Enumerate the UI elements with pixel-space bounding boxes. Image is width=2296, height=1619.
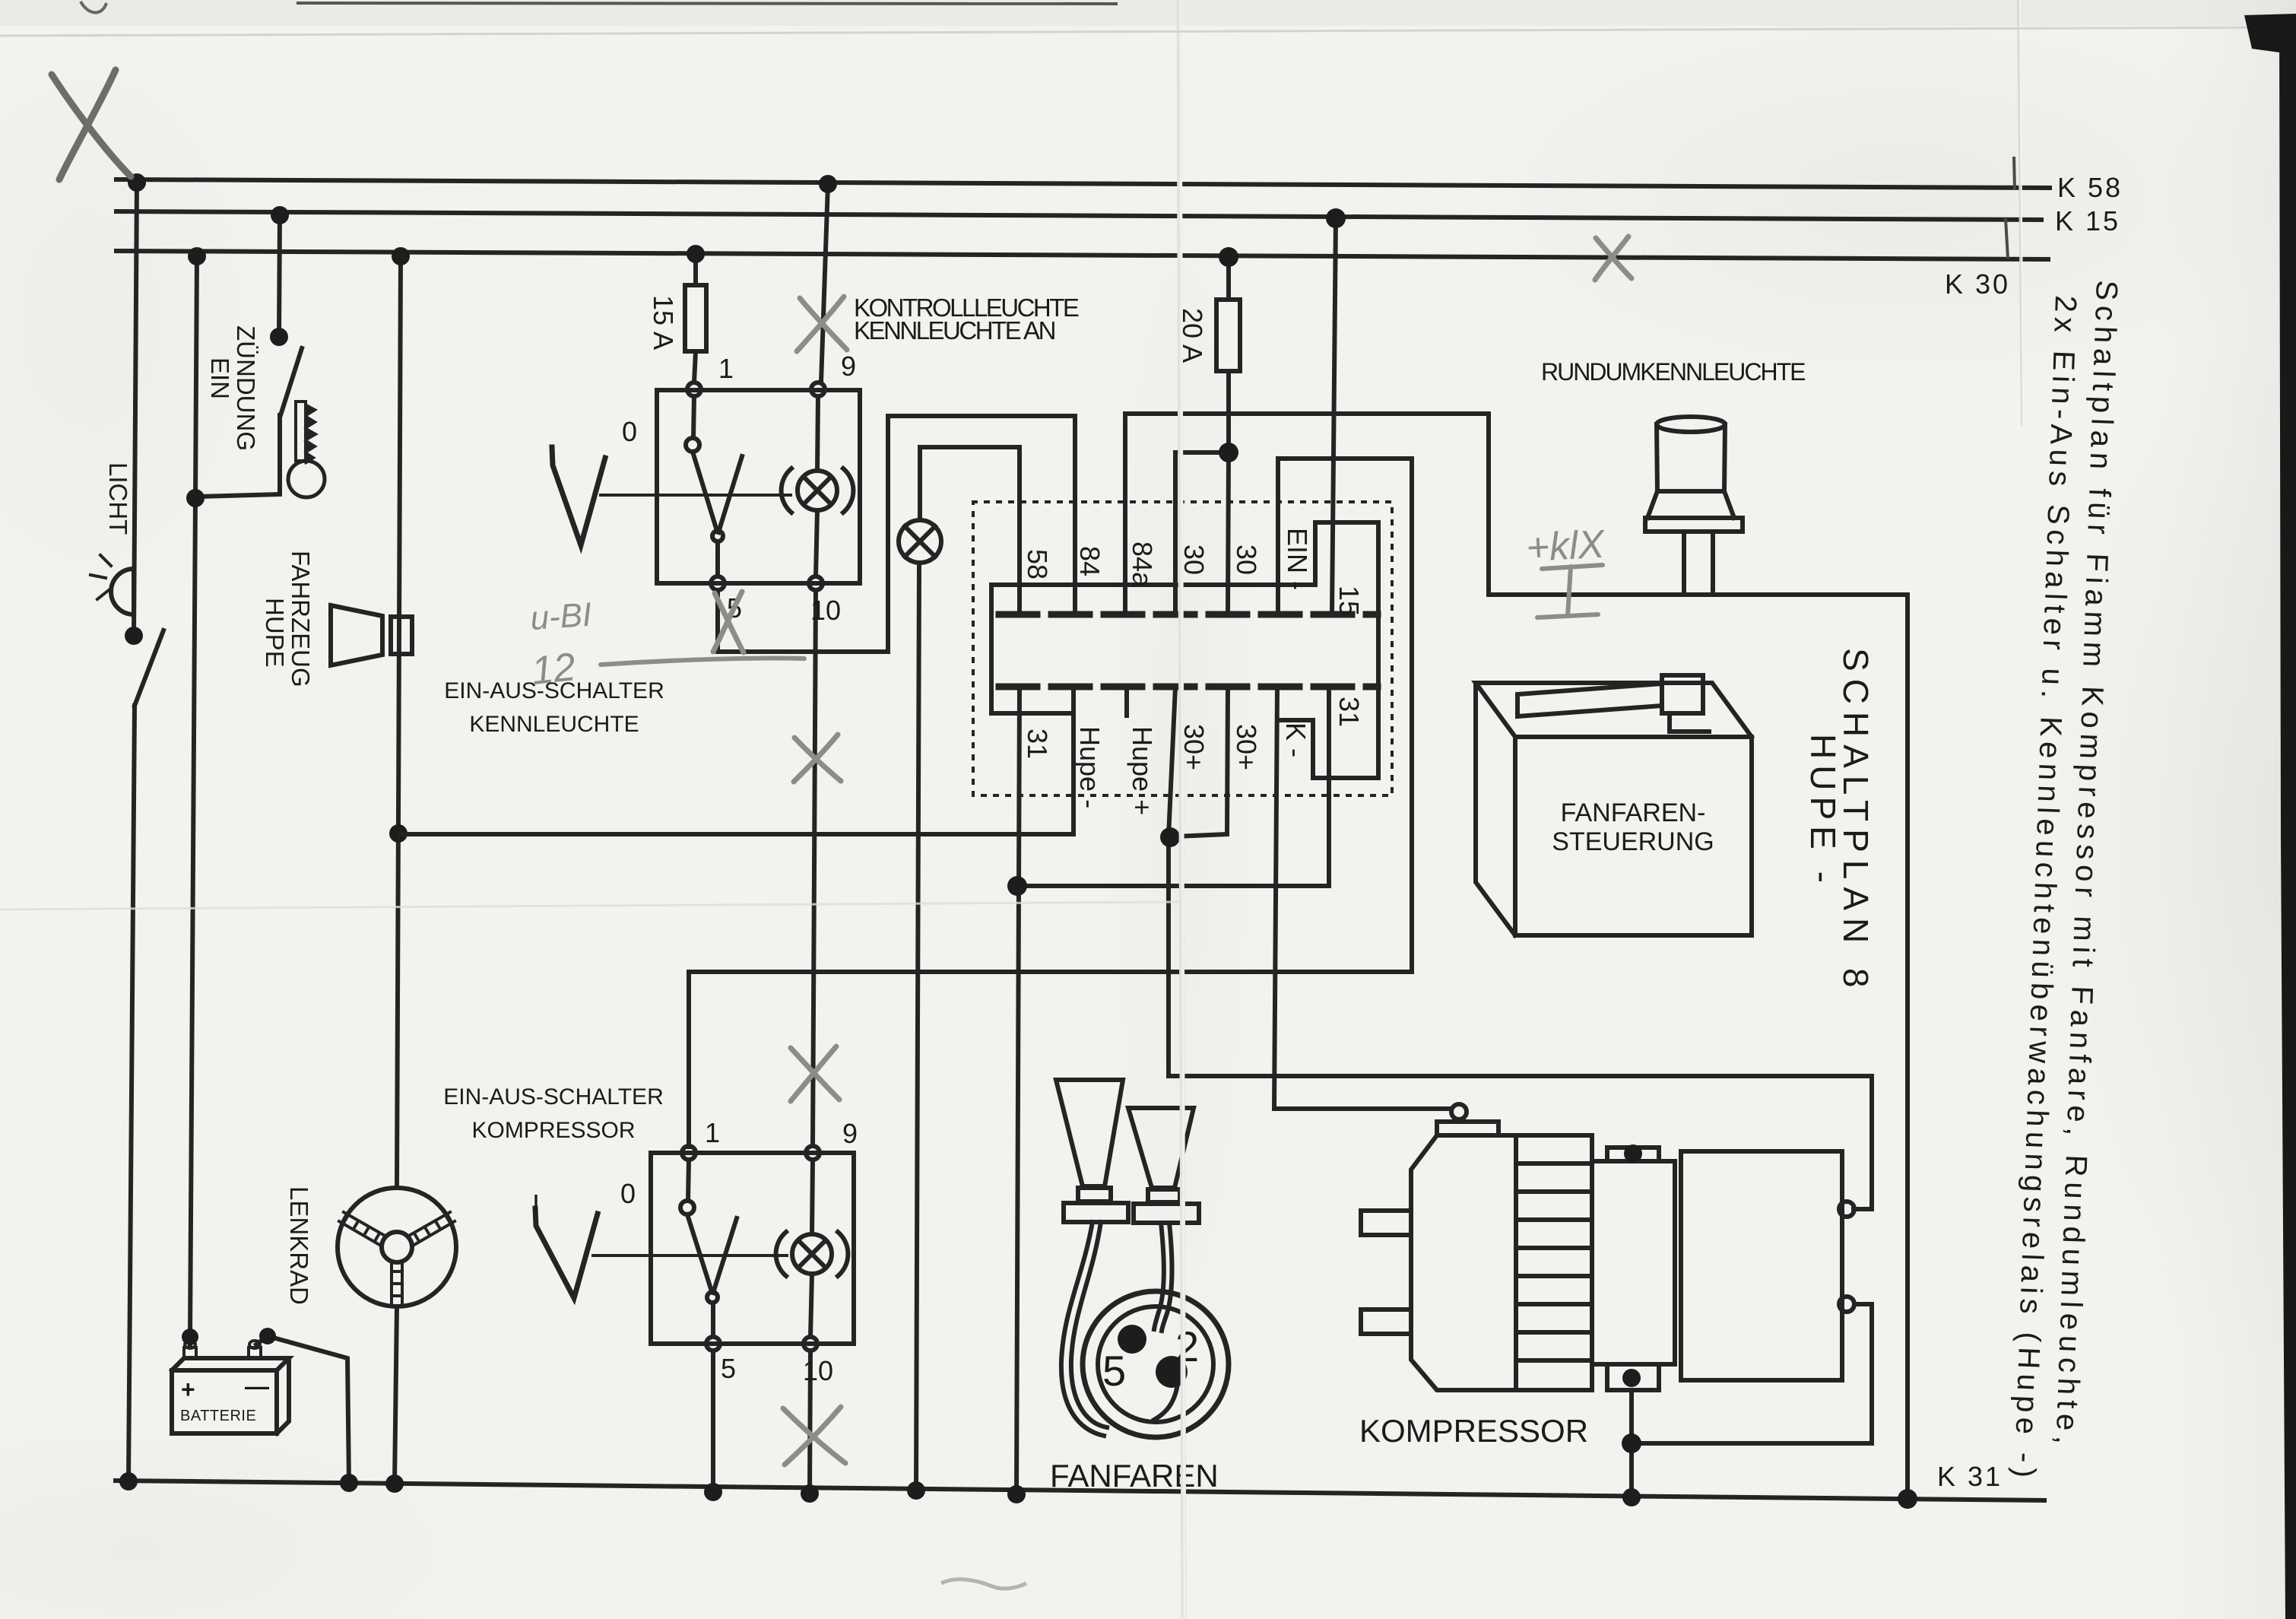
svg-text:KOMPRESSOR: KOMPRESSOR xyxy=(1359,1413,1588,1449)
node K30 fuse15 tap xyxy=(687,245,705,263)
pencil I-beam mark xyxy=(1537,565,1603,617)
wire battery minus to K31 xyxy=(256,1336,349,1483)
pencil X top left xyxy=(52,75,131,176)
linkage line S2 xyxy=(593,1254,787,1257)
pencil X below S1 xyxy=(794,738,841,781)
node coupling top xyxy=(1624,1144,1642,1163)
node K58 S1-9 tap xyxy=(819,175,837,193)
terminal S2-9 xyxy=(806,1146,820,1160)
key symbol ZUENDUNG xyxy=(288,402,325,497)
junction dots left area xyxy=(119,173,410,1493)
node licht lamp xyxy=(125,627,143,645)
svg-text:0: 0 xyxy=(622,416,637,447)
node zuendung lower xyxy=(186,489,205,507)
linkage line S1 xyxy=(601,494,791,497)
node 31 join xyxy=(1007,876,1027,896)
lamp LICHT headlight symbol xyxy=(90,555,134,614)
svg-text:10: 10 xyxy=(803,1355,833,1386)
switch S2 EIN-AUS-SCHALTER KOMPRESSOR box xyxy=(651,1153,854,1344)
fuse 15A xyxy=(685,255,706,383)
wire motor bottom to K31 xyxy=(1629,1390,1634,1497)
wire battery plus stub xyxy=(188,1337,192,1346)
svg-text:+: + xyxy=(181,1376,195,1403)
node K31 S2-5 xyxy=(704,1483,722,1501)
wire pin 30+ down to kompressor feed xyxy=(1169,687,1872,1209)
node K31 battery minus xyxy=(340,1474,358,1492)
wire K58 down to S1 terminal 9 xyxy=(821,184,828,383)
crease horizontal middle left xyxy=(0,902,1179,909)
wire kontrollleuchte top to relay pin 58 xyxy=(920,447,1020,613)
pencil underline after 12 xyxy=(601,658,804,665)
fold marks right xyxy=(2006,157,2015,259)
horn FANFARE left xyxy=(1056,1080,1128,1436)
pencil X right of 20A xyxy=(1596,238,1632,278)
svg-text:K 31: K 31 xyxy=(1937,1461,2003,1492)
lamp S1 indicator xyxy=(782,468,854,513)
svg-text:15: 15 xyxy=(1334,586,1365,616)
wire pin EIN-minus route to S2 terminal 1 xyxy=(689,459,1412,1147)
horn FAHRZEUG HUPE symbol xyxy=(331,605,412,665)
pencil X above S2-9 xyxy=(791,1048,839,1100)
pin dot 2 fanfare xyxy=(1156,1356,1188,1388)
switch S1 blade hinge circle xyxy=(712,531,723,541)
motor top bracket xyxy=(1437,1122,1498,1135)
wire kontrollleuchte bottom to K31 xyxy=(916,563,919,1490)
terminal S1-10 xyxy=(809,576,823,590)
svg-text:31: 31 xyxy=(1334,697,1365,727)
wire beacon to right side drop xyxy=(1489,595,1908,1499)
svg-text:STEUERUNG: STEUERUNG xyxy=(1552,827,1714,856)
wire ZUENDUNG lower terminal xyxy=(198,415,280,497)
svg-text:K -: K - xyxy=(1280,722,1311,757)
node K31 S2-10 xyxy=(801,1484,819,1503)
wire internal hook pin15 area (58 net right side) xyxy=(991,522,1378,778)
svg-text:KOMPRESSOR: KOMPRESSOR xyxy=(471,1118,635,1143)
svg-text:LICHT: LICHT xyxy=(104,462,132,535)
terminal S1-9 xyxy=(811,383,825,396)
battery symbol BATTERIE xyxy=(172,1341,289,1433)
relay box FANFAREN-STEUERUNG xyxy=(1476,675,1752,935)
svg-text:9: 9 xyxy=(841,351,856,382)
wire pin 30+ second join xyxy=(1175,687,1228,836)
node fuse20 to 30 pins xyxy=(1219,443,1238,462)
coupling bottom bracket xyxy=(1607,1364,1659,1390)
wire pin Hupe-minus stub xyxy=(1071,687,1076,713)
pump terminal lower xyxy=(1839,1297,1854,1312)
svg-text:u-BI: u-BI xyxy=(529,596,593,638)
wire S2-9 to lamp xyxy=(812,1160,813,1234)
svg-text:K 30: K 30 xyxy=(1945,268,2010,300)
wire fuse20 junction to pin 30 xyxy=(1175,452,1229,613)
fuse 20A xyxy=(1216,262,1240,452)
wire lamp to S2-10 xyxy=(810,1274,812,1337)
svg-text:EIN: EIN xyxy=(206,357,234,399)
switch S2 pivot contact xyxy=(680,1201,694,1214)
svg-text:30: 30 xyxy=(1231,544,1262,575)
terminal S2-1 xyxy=(682,1146,696,1160)
svg-text:1: 1 xyxy=(718,353,734,384)
pencil X on S1-9 wire xyxy=(800,298,847,350)
wire S2-10 to K31 xyxy=(810,1351,810,1494)
wire S1 hinge to terminal 5 xyxy=(715,541,720,576)
svg-text:12: 12 xyxy=(529,645,578,694)
svg-text:9: 9 xyxy=(842,1118,858,1149)
wire K15 bus xyxy=(116,211,2041,220)
wire K15 to ZUENDUNG switch xyxy=(279,215,280,337)
horn FANFARE right xyxy=(1128,1108,1199,1331)
svg-text:1: 1 xyxy=(705,1117,720,1148)
crease vertical center fold xyxy=(1179,0,1184,1619)
wire pin Hupe-minus to FAHRZEUG HUPE xyxy=(401,687,1073,834)
steering wheel LENKRAD xyxy=(338,1188,456,1306)
wire pin 31 right down xyxy=(1018,687,1329,886)
svg-text:K 58: K 58 xyxy=(2057,172,2123,203)
wire K30 to ZUENDUNG and battery plus xyxy=(195,256,197,498)
node 30+ join xyxy=(1160,827,1180,847)
wire pin Hupe-plus stub xyxy=(1124,687,1129,716)
lamp S2 indicator xyxy=(776,1232,848,1276)
wire pin 58 stub xyxy=(1017,585,1022,613)
svg-text:KENNLEUCHTE: KENNLEUCHTE xyxy=(469,712,639,737)
node K31 lenkrad xyxy=(385,1475,404,1493)
svg-text:10: 10 xyxy=(810,595,841,626)
wire K15 to pin 15 xyxy=(1332,218,1336,613)
svg-text:K 15: K 15 xyxy=(2055,205,2120,237)
wire S1-1 internal stub xyxy=(693,396,694,438)
node K31 kontrollleuchte xyxy=(907,1481,925,1500)
crease vertical right fold xyxy=(2019,0,2023,426)
node motor bottom bracket xyxy=(1622,1369,1641,1387)
svg-text:—: — xyxy=(245,1373,269,1400)
node battery minus xyxy=(259,1328,276,1344)
connector plug FANFAREN circle xyxy=(1083,1291,1229,1437)
crease horizontal top xyxy=(0,27,2296,36)
wire LICHT switch lower to K31 xyxy=(128,706,135,1481)
pump terminal upper xyxy=(1839,1202,1854,1217)
wire S1-5 to relay pin 84 (down, right, up, right) xyxy=(718,416,1075,652)
wire K30 bus xyxy=(116,251,2048,259)
wire S1-9 to lamp xyxy=(817,396,818,471)
wire S1-10 down to S2 terminal 9 xyxy=(813,590,816,1146)
wire K58 bus xyxy=(116,179,2050,188)
svg-text:HUPE -: HUPE - xyxy=(1803,734,1843,889)
wire S2-1 internal stub xyxy=(688,1160,689,1201)
wire pin K-minus down to kompressor xyxy=(1274,687,1451,1109)
node motor bottom tee xyxy=(1622,1433,1641,1453)
actuator symbol S1 (manual V) xyxy=(552,447,605,545)
switch S2 moving blade xyxy=(687,1214,737,1293)
pencil handwritten marks xyxy=(52,70,1632,1465)
svg-text:31: 31 xyxy=(1022,729,1053,759)
motor fin section xyxy=(1516,1135,1592,1390)
wire pin 31 left to K31 xyxy=(1016,687,1020,1494)
node battery plus xyxy=(182,1329,198,1345)
switch S1 pivot contact xyxy=(686,438,699,452)
svg-text:58: 58 xyxy=(1022,549,1053,579)
node K31 motor xyxy=(1622,1488,1641,1506)
node K15 pin15 tap xyxy=(1326,208,1346,228)
svg-text:BATTERIE: BATTERIE xyxy=(180,1408,256,1424)
wire S2-5 to K31 xyxy=(711,1351,715,1492)
switch S1 moving blade xyxy=(693,452,742,532)
node K15 zuendung tap xyxy=(271,206,289,224)
wire LENKRAD to K31 xyxy=(395,1306,397,1484)
node hupe-minus tee xyxy=(389,824,408,843)
svg-text:2: 2 xyxy=(1175,1322,1199,1370)
node zuendung upper xyxy=(270,328,288,346)
scanner dark edge top xyxy=(297,3,1118,4)
terminal S1-5 xyxy=(711,576,725,590)
svg-text:RUNDUMKENNLEUCHTE: RUNDUMKENNLEUCHTE xyxy=(1541,358,1805,386)
svg-text:Hupe -: Hupe - xyxy=(1074,726,1105,808)
pencil scribble bottom center xyxy=(941,1579,1026,1589)
motor coupling block xyxy=(1592,1161,1675,1364)
motor KOMPRESSOR assembly xyxy=(1361,1104,1854,1390)
svg-text:LENKRAD: LENKRAD xyxy=(285,1186,313,1305)
svg-text:15 A: 15 A xyxy=(648,295,679,350)
node K31 right drop xyxy=(1898,1489,1917,1509)
switch LICHT blade (open) xyxy=(135,630,163,706)
svg-text:+klX: +klX xyxy=(1525,522,1607,570)
motor stub terminal lower xyxy=(1361,1309,1411,1334)
svg-text:Hupe +: Hupe + xyxy=(1127,726,1158,815)
relay connector dotted outline xyxy=(973,502,1392,795)
svg-text:KENNLEUCHTE AN: KENNLEUCHTE AN xyxy=(854,316,1055,344)
svg-text:FANFAREN: FANFAREN xyxy=(1050,1458,1219,1494)
svg-text:84a: 84a xyxy=(1127,541,1158,588)
wire pump lower terminal to K31 xyxy=(1632,1304,1872,1443)
switch S1 EIN-AUS-SCHALTER KENNLEUCHTE box xyxy=(657,390,860,583)
wire K58 to LICHT switch xyxy=(134,183,137,636)
wire lamp to S1-10 xyxy=(816,510,817,576)
node K30 battery tap xyxy=(188,247,206,265)
switch S2 blade hinge circle xyxy=(707,1292,718,1303)
coupling top bracket xyxy=(1607,1148,1659,1161)
pencil X below S2-10 xyxy=(783,1408,845,1463)
svg-text:5: 5 xyxy=(721,1353,736,1384)
connector pin row upper xyxy=(999,611,1378,618)
paper curl mark top left xyxy=(81,2,106,13)
svg-text:EIN-AUS-SCHALTER: EIN-AUS-SCHALTER xyxy=(443,1084,663,1109)
beacon RUNDUMKENNLEUCHTE xyxy=(1645,417,1743,593)
terminal S1-1 xyxy=(687,383,701,396)
svg-text:ZÜNDUNG: ZÜNDUNG xyxy=(232,325,260,451)
terminal S2-5 xyxy=(706,1337,720,1351)
svg-text:FANFAREN-: FANFAREN- xyxy=(1561,798,1706,827)
svg-text:I: I xyxy=(532,1189,540,1220)
wire S2 hinge to terminal 5 xyxy=(711,1303,715,1337)
actuator symbol S2 (manual V) xyxy=(535,1208,598,1298)
wire pin 84a up and across to beacon xyxy=(1125,414,1489,613)
wire K31 bus xyxy=(116,1481,2044,1500)
motor stub terminal upper xyxy=(1361,1211,1411,1235)
svg-text:84: 84 xyxy=(1074,546,1105,576)
svg-text:FAHRZEUG: FAHRZEUG xyxy=(287,551,315,687)
node K31 pin31 xyxy=(1007,1485,1026,1503)
scanner black edge right xyxy=(2244,14,2296,1619)
connector pin row lower xyxy=(999,684,1378,690)
node K58 licht tap xyxy=(128,173,146,192)
svg-text:30+: 30+ xyxy=(1231,724,1262,770)
terminal S2-10 xyxy=(804,1337,817,1351)
pencil X near S1 terminal 5 xyxy=(715,593,744,652)
svg-text:5: 5 xyxy=(1102,1347,1126,1395)
lamp KONTROLLLEUCHTE xyxy=(899,520,941,563)
wire K30 to FAHRZEUG HUPE and LENKRAD xyxy=(397,256,401,1188)
svg-text:0: 0 xyxy=(620,1178,636,1209)
switch ZUENDUNG blade xyxy=(281,348,302,415)
svg-text:HUPE: HUPE xyxy=(261,598,289,668)
node K30 fuse20 tap xyxy=(1219,247,1238,267)
node K30 hupe tap xyxy=(392,247,410,265)
svg-text:EIN -: EIN - xyxy=(1282,528,1313,590)
pin dot 5 fanfare xyxy=(1118,1325,1146,1354)
terminal circle K-minus on motor xyxy=(1451,1104,1467,1119)
node K31 licht xyxy=(119,1472,138,1490)
pump box xyxy=(1681,1151,1842,1380)
motor end bell xyxy=(1411,1135,1516,1390)
